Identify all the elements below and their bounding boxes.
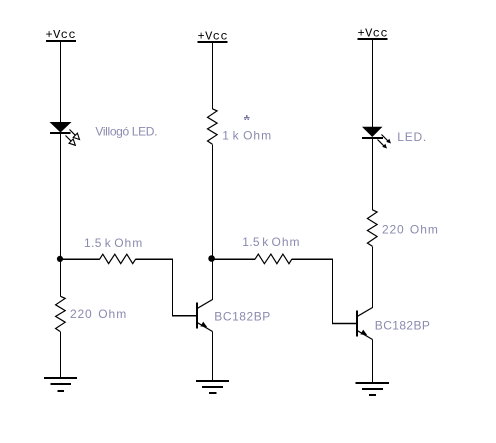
svg-text:220Ohm: 220Ohm (382, 223, 439, 237)
resistor R1 1 k Ohm (208, 109, 218, 145)
wire Q2 emitter to ground (372, 340, 374, 383)
LED D1 Villogó LED (50, 122, 80, 145)
svg-text:LED.: LED. (397, 130, 427, 144)
wire +Vcc right to LED D2 (372, 39, 374, 127)
svg-text:Villogó LED.: Villogó LED. (95, 124, 157, 138)
resistor R4 1.5 k Ohm right (255, 254, 292, 264)
svg-text:220Ohm: 220Ohm (70, 307, 127, 321)
svg-text:BC182BP: BC182BP (375, 318, 431, 332)
transistor Q1 BC182BP (197, 300, 213, 332)
svg-text:1.5kOhm: 1.5kOhm (242, 235, 300, 249)
power symbol +Vcc left (46, 28, 77, 42)
power symbol +Vcc right (358, 27, 389, 41)
svg-text:BC182BP: BC182BP (214, 310, 271, 324)
wire D1 cathode to node A (60, 133, 62, 297)
ground right (356, 383, 390, 395)
power symbol +Vcc middle (198, 30, 229, 44)
svg-text:+Vcc: +Vcc (46, 28, 77, 42)
LED D2 (362, 127, 391, 149)
wire node B to resistor R4 (213, 258, 256, 260)
wire R2 to ground (60, 332, 62, 378)
wire R5 to Q2 collector (372, 246, 374, 308)
wire +Vcc left to LED D1 anode (60, 40, 62, 123)
ground left (44, 378, 77, 391)
wire Q1 emitter to ground (212, 332, 214, 381)
label star (244, 115, 250, 120)
ground middle (196, 381, 229, 393)
wire R4 to corner (292, 258, 333, 260)
transistor Q2 BC182BP (357, 308, 373, 340)
wire corner down right (332, 259, 334, 324)
resistor R2 220 Ohm left (56, 296, 66, 332)
node A junction dot (57, 256, 63, 262)
node B junction dot (208, 255, 215, 262)
wire R3 to corner (135, 258, 173, 260)
wire to Q2 base (332, 323, 357, 325)
wire +Vcc middle to R1 (212, 42, 214, 109)
wire R1 to node B and Q1 collector (212, 144, 214, 300)
resistor R5 220 Ohm right (367, 210, 377, 247)
resistor R3 1.5 k Ohm left (100, 254, 136, 263)
wire D2 cathode to R5 (372, 138, 374, 210)
wire node A to resistor R3 (61, 258, 100, 260)
svg-text:1.5kOhm: 1.5kOhm (84, 236, 143, 250)
wire corner down (172, 259, 174, 317)
wire to Q1 base (172, 315, 197, 317)
